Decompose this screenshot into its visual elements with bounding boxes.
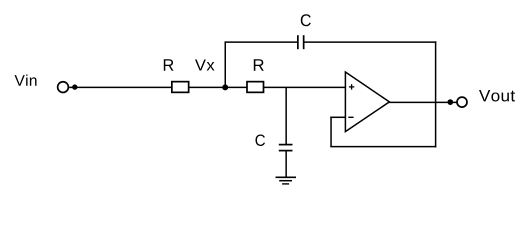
wire feedback stub to inverting input xyxy=(330,116,345,118)
wire Vx to R2 xyxy=(225,86,247,88)
wire tee down to C2 xyxy=(285,87,287,144)
wire node Vx up to top feedback branch xyxy=(224,41,226,87)
wire Vin terminal to R1 xyxy=(69,86,171,88)
wire feedback right vertical xyxy=(435,41,437,147)
op-amp U1 minus input marker xyxy=(348,116,353,118)
resistor R2 xyxy=(247,82,264,93)
label R2 value R xyxy=(254,59,264,71)
resistor R1 xyxy=(172,82,189,93)
wire R1 to node Vx xyxy=(189,86,225,88)
terminal Vin xyxy=(58,82,78,93)
label Vin xyxy=(15,75,37,86)
wire op-amp output xyxy=(389,101,457,103)
capacitor C2 xyxy=(279,145,293,151)
wire top branch right segment C1 to output branch xyxy=(304,41,436,43)
wire C2 to ground xyxy=(285,151,287,177)
label C1 value C xyxy=(301,14,311,26)
label C2 value C xyxy=(256,135,266,147)
wire feedback bottom xyxy=(330,146,436,148)
op-amp U1 xyxy=(345,72,389,132)
terminal Vout xyxy=(457,97,467,107)
label Vout xyxy=(479,90,515,102)
op-amp U1 plus input marker xyxy=(349,84,354,89)
node output junction dot xyxy=(447,99,453,105)
ground xyxy=(276,177,297,184)
wire top branch left segment to C1 xyxy=(225,41,298,43)
wire feedback left vertical xyxy=(330,117,332,147)
label R1 value R xyxy=(164,59,174,71)
label Vx xyxy=(195,60,215,71)
capacitor C1 xyxy=(298,35,304,49)
wire R2 to op-amp noninverting input xyxy=(264,86,346,88)
node Vx junction dot xyxy=(222,84,228,90)
